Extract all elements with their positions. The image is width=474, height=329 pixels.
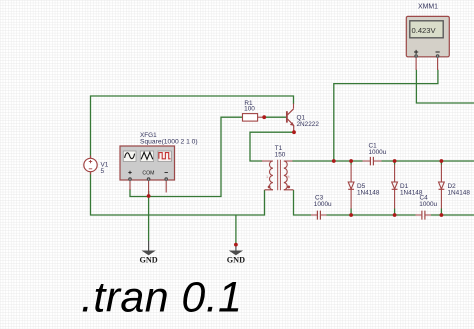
svg-text:1000u: 1000u xyxy=(369,149,387,156)
svg-text:.tran 0.1: .tran 0.1 xyxy=(81,274,242,322)
svg-text:2N2222: 2N2222 xyxy=(297,121,320,128)
svg-text:GND: GND xyxy=(139,256,157,265)
svg-text:GND: GND xyxy=(227,256,245,265)
svg-text:1000u: 1000u xyxy=(419,201,437,208)
svg-text:0.423V: 0.423V xyxy=(412,26,437,35)
svg-text:COM: COM xyxy=(142,171,154,177)
svg-text:1N4148: 1N4148 xyxy=(448,189,471,196)
svg-text:1: 1 xyxy=(266,175,268,179)
svg-text:Square(1000 2 1 0): Square(1000 2 1 0) xyxy=(140,139,198,146)
svg-text:100: 100 xyxy=(244,106,255,113)
svg-text:5: 5 xyxy=(101,168,105,175)
svg-text:1000u: 1000u xyxy=(314,201,332,208)
svg-text:XMM1: XMM1 xyxy=(418,4,438,11)
svg-text:1N4148: 1N4148 xyxy=(357,189,380,196)
svg-text:1N4148: 1N4148 xyxy=(400,189,423,196)
svg-text:150: 150 xyxy=(275,152,286,159)
